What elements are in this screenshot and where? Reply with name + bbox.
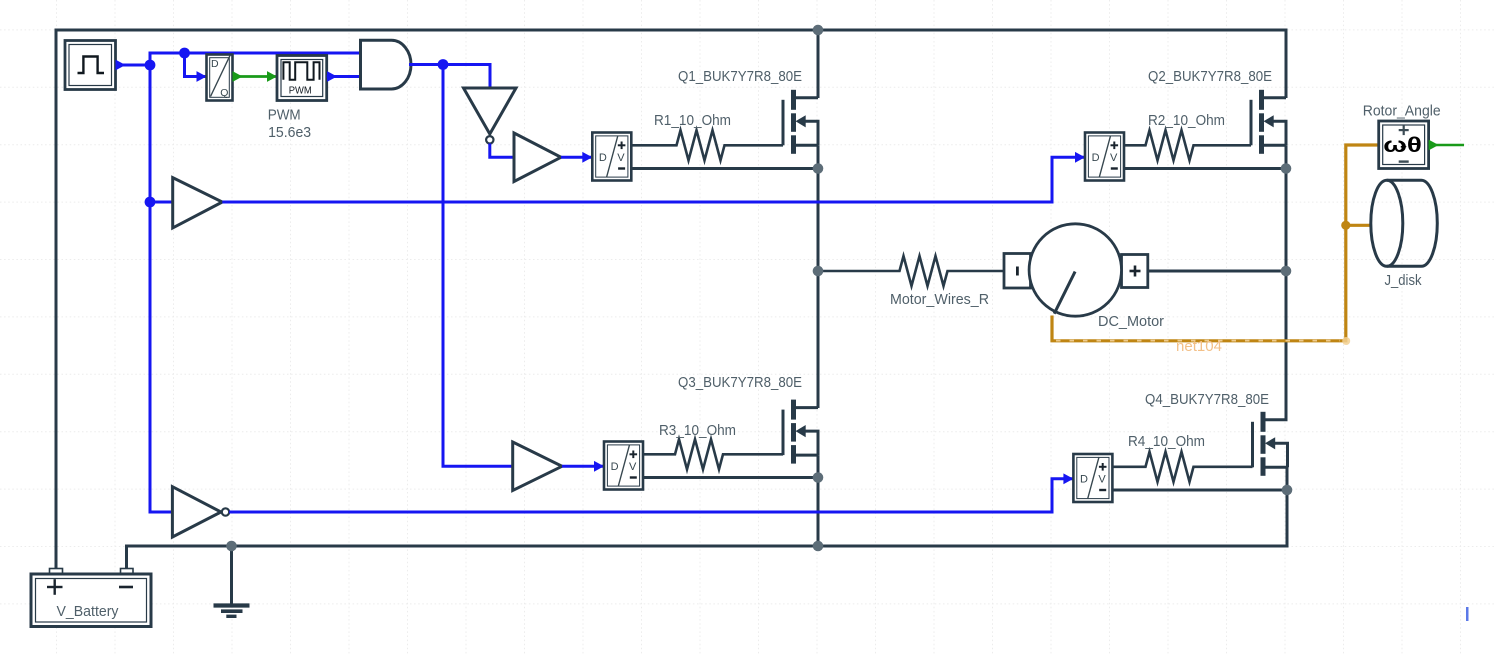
svg-text:Motor_Wires_R: Motor_Wires_R bbox=[890, 291, 989, 308]
svg-text:Q4_BUK7Y7R8_80E: Q4_BUK7Y7R8_80E bbox=[1145, 391, 1269, 408]
svg-text:V_Battery: V_Battery bbox=[57, 603, 119, 620]
wire: right bus Q4 source to bottom rail, bottom rail, battery - riser bbox=[127, 467, 1288, 569]
source V_Battery bbox=[31, 569, 151, 627]
node: gray junction ground tap bbox=[226, 541, 237, 552]
svg-text:R1_10_Ohm: R1_10_Ohm bbox=[654, 112, 731, 129]
svg-text:Q1_BUK7Y7R8_80E: Q1_BUK7Y7R8_80E bbox=[678, 68, 802, 85]
node: blue junction at AND output bbox=[438, 59, 449, 70]
node: gray junction Q2 source / DV2 minus bbox=[1281, 163, 1292, 174]
wire: buffer B3 output to DV3 bbox=[562, 465, 604, 468]
wire: DV4 minus to right bus bbox=[1112, 489, 1287, 492]
motor DC_Motor bbox=[1004, 224, 1148, 316]
gate AND U1 bbox=[361, 40, 412, 89]
svg-text:Q: Q bbox=[220, 87, 228, 99]
wire: DV1 minus to center bus bbox=[632, 167, 819, 170]
converter DV1 (D/V digital to voltage) bbox=[592, 133, 631, 181]
wire: green D/Q output to PWM block bbox=[233, 75, 278, 78]
wire: orange stub to J_disk bbox=[1346, 224, 1370, 227]
wire: PWM output to AND gate input B bbox=[327, 75, 361, 78]
node: gray junction Q3 source / DV3 minus bbox=[813, 472, 824, 483]
wire: center bus Q3 source to bottom rail bbox=[817, 455, 820, 546]
node: gray junction top rail center bbox=[813, 25, 824, 36]
node: gray junction center bus bottom rail bbox=[813, 541, 824, 552]
node: blue junction at pulse output bbox=[145, 60, 156, 71]
resistor R4_10_Ohm bbox=[1112, 452, 1252, 482]
inertia J_disk bbox=[1371, 180, 1437, 266]
transistor Q3 bbox=[783, 400, 818, 464]
converter D/Q bbox=[207, 55, 233, 101]
wire: buffer B2 output to DV1 bbox=[561, 156, 592, 159]
wire: motor + terminal to right bus bbox=[1148, 270, 1286, 273]
transistor Q4 bbox=[1253, 412, 1288, 476]
block Rotor_Angle (w to theta sensor) bbox=[1379, 121, 1429, 169]
wire: junction down to buffer B3 bbox=[443, 65, 513, 467]
wire: center bus Q1 source to Q3 drain bbox=[817, 145, 820, 408]
transistor Q2 bbox=[1251, 90, 1286, 154]
gate NOT2 (inverter) bbox=[172, 487, 221, 537]
resistor R3_10_Ohm bbox=[643, 439, 783, 469]
wire: DV3 minus to center bus bbox=[643, 476, 818, 479]
svg-text:15.6e3: 15.6e3 bbox=[268, 124, 311, 141]
node: blue junction at buffer B1 tap bbox=[145, 197, 156, 208]
buffer B3 bbox=[513, 442, 562, 491]
wire: branch down to D/Q converter input bbox=[185, 53, 207, 77]
wire: orange mechanical net104 bbox=[1052, 145, 1379, 341]
node: gray junction center bus motor tap bbox=[813, 266, 824, 277]
wire: battery + riser, top power rail, right bus top bbox=[56, 30, 1286, 570]
resistor R2_10_Ohm bbox=[1124, 130, 1251, 160]
node: gray junction Q1 source / DV1 minus bbox=[813, 163, 824, 174]
wire: AND output to junction and NOT1 bbox=[409, 65, 490, 89]
transistor Q1 bbox=[783, 90, 818, 154]
svg-text:R3_10_Ohm: R3_10_Ohm bbox=[659, 422, 736, 439]
svg-text:PWM: PWM bbox=[289, 86, 312, 97]
svg-text:D: D bbox=[211, 58, 219, 70]
buffer B1 bbox=[173, 178, 223, 228]
svg-text:θ: θ bbox=[1407, 134, 1422, 157]
node: blue junction on top wire bbox=[179, 48, 190, 59]
gate NOT1 (inverter, pointing down) bbox=[464, 88, 517, 134]
node: gray junction right bus motor tap bbox=[1281, 266, 1292, 277]
svg-text:Q2_BUK7Y7R8_80E: Q2_BUK7Y7R8_80E bbox=[1148, 68, 1272, 85]
wire: NOT2 output long run to DV4 bbox=[229, 479, 1073, 512]
svg-text:R4_10_Ohm: R4_10_Ohm bbox=[1128, 433, 1205, 450]
svg-text:DC_Motor: DC_Motor bbox=[1098, 313, 1164, 330]
buffer B2 bbox=[514, 133, 561, 182]
svg-text:net104: net104 bbox=[1176, 338, 1222, 355]
wire: NOT1 output to buffer B2 bbox=[490, 144, 514, 158]
node net104 junction on orange net bbox=[1341, 221, 1350, 230]
svg-text:R2_10_Ohm: R2_10_Ohm bbox=[1148, 112, 1225, 129]
wire: DV2 minus to right bus bbox=[1124, 167, 1286, 170]
wire: branch to buffer B1 input bbox=[150, 201, 173, 204]
block PWM generator bbox=[277, 56, 327, 101]
wire: green rotor angle output bbox=[1429, 144, 1464, 146]
resistor R1_10_Ohm bbox=[632, 130, 784, 160]
converter DV3 (D/V digital to voltage) bbox=[604, 442, 643, 490]
svg-text:Rotor_Angle: Rotor_Angle bbox=[1363, 103, 1441, 120]
svg-text:J_disk: J_disk bbox=[1385, 272, 1422, 289]
converter DV4 (D/V digital to voltage) bbox=[1073, 454, 1112, 502]
wire: right bus Q2 source to Q4 drain bbox=[1285, 145, 1288, 420]
source pulse generator bbox=[65, 41, 116, 90]
node: gray junction Q4 source / DV4 minus bbox=[1282, 485, 1293, 496]
svg-text:PWM: PWM bbox=[268, 107, 301, 124]
svg-text:Q3_BUK7Y7R8_80E: Q3_BUK7Y7R8_80E bbox=[678, 374, 802, 391]
ground bbox=[214, 546, 250, 616]
wire: buffer B1 output long run to DV2 bbox=[222, 157, 1085, 202]
wire: junction up and along top to AND gate input A bbox=[150, 53, 361, 65]
wire: net104 highlight dashes on orange wire bbox=[1056, 340, 1340, 342]
converter DV2 (D/V digital to voltage) bbox=[1085, 133, 1124, 181]
wire: junction down the left side to buffer and NOT gate bbox=[150, 65, 173, 512]
resistor Motor_Wires_R bbox=[818, 256, 1004, 286]
wire: pulse source output to junction bbox=[116, 64, 151, 67]
wire: center drain bus from top rail to Q1 bbox=[817, 30, 820, 98]
